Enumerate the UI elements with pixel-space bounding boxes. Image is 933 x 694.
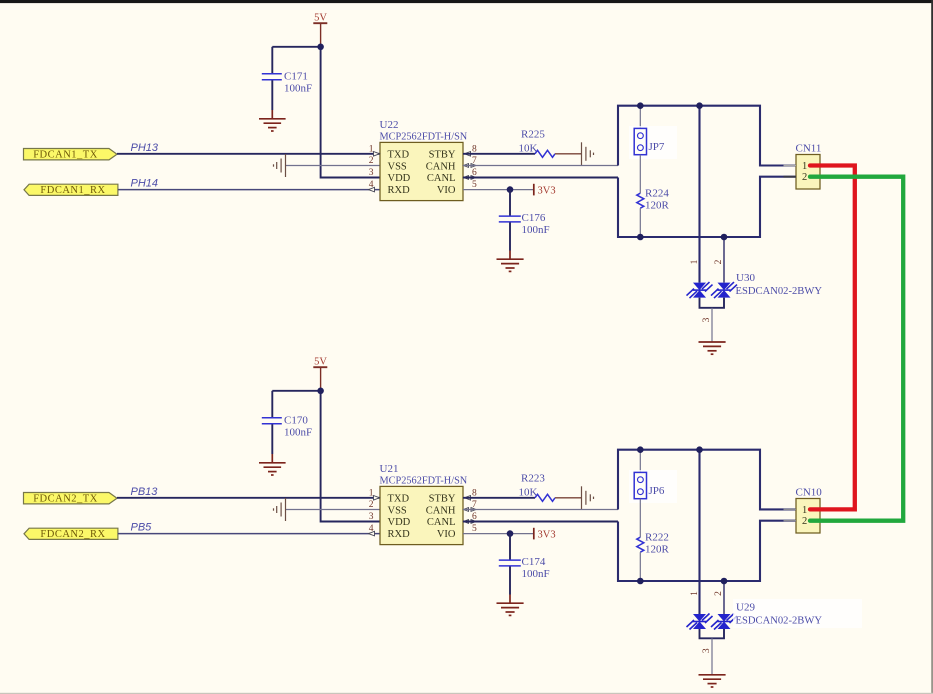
svg-text:U30: U30 [736, 272, 755, 284]
U21 pin numbers left 1-4 [369, 488, 374, 534]
wire VIO pin5 to 3V3 [463, 533, 534, 535]
connector CN10 [796, 486, 823, 533]
wire top rail to JP7 [639, 106, 641, 129]
svg-text:1: 1 [690, 591, 700, 596]
svg-text:RXD: RXD [388, 529, 411, 540]
wire 5V rail to C171 [272, 46, 320, 48]
svg-text:PH14: PH14 [131, 177, 159, 189]
U22 pin numbers left 1-4 [369, 144, 374, 190]
svg-text:100nF: 100nF [284, 83, 312, 95]
wire R222 to bottom rail [639, 552, 641, 581]
CN10 pin 1 stub [784, 508, 797, 510]
junction VIO / C174 [507, 530, 514, 537]
junction bottom rail / R224 [637, 234, 644, 241]
junction bottom rail / diode branch [721, 578, 728, 585]
wires diode bottoms join [700, 298, 725, 308]
power 3V3 (top) [534, 184, 556, 197]
resistor R222 120R [637, 531, 670, 555]
svg-text:VSS: VSS [388, 161, 407, 172]
svg-text:1: 1 [690, 259, 700, 264]
wire FDCAN2_TX to TXD pin1 [117, 497, 380, 499]
wire FDCAN1_TX to TXD pin1 [117, 153, 380, 155]
svg-text:VSS: VSS [388, 505, 407, 516]
wire U30 pin3 to ground [711, 308, 713, 342]
port FDCAN1_TX [24, 149, 118, 161]
capacitor C171 [262, 71, 312, 95]
svg-text:PB13: PB13 [131, 486, 159, 498]
svg-text:FDCAN1_RX: FDCAN1_RX [40, 185, 105, 196]
svg-text:STBY: STBY [429, 150, 456, 161]
ground below C170 [259, 454, 286, 475]
svg-text:PB5: PB5 [131, 521, 153, 533]
pin 1 input arrow [374, 496, 380, 501]
wire CAN_H bus (red) CN11.1 to CN10.1 [810, 166, 855, 510]
svg-text:TXD: TXD [388, 150, 410, 161]
wire 5V rail to C170 [272, 390, 320, 392]
pin 7 bidir arrows [464, 164, 477, 168]
U22 pin names [388, 150, 456, 197]
power 3V3 (bottom) [534, 528, 556, 541]
wire U29 pin3 to ground [711, 638, 713, 674]
svg-text:1: 1 [369, 144, 374, 154]
U22 pin numbers right 8-5 [472, 144, 477, 190]
TVS diode U30 channel 1 [687, 282, 713, 298]
wire CANH pin7 to left rail [463, 165, 618, 167]
svg-text:CANH: CANH [426, 161, 456, 172]
pin 4 output arrow [369, 531, 375, 536]
ground below C176 [497, 251, 524, 272]
svg-text:MCP2562FDT-H/SN: MCP2562FDT-H/SN [380, 132, 468, 143]
junction 5V/C171 [317, 44, 324, 51]
svg-text:MCP2562FDT-H/SN: MCP2562FDT-H/SN [380, 476, 468, 487]
svg-text:2: 2 [802, 516, 807, 527]
white redraw patch behind JP7 [629, 126, 677, 159]
wire 5V down to VDD pin3 [321, 391, 380, 522]
resistor R225 10K [519, 128, 556, 157]
wire VSS pin2 to ground [286, 165, 381, 167]
wire C171 bottom [271, 80, 273, 110]
wire junction to C174 [509, 534, 511, 560]
wire CANL branch down to ESD diode 2 [723, 237, 725, 283]
power 5V (top) [313, 13, 327, 47]
jumper JP6 [634, 472, 665, 498]
svg-text:FDCAN2_RX: FDCAN2_RX [40, 529, 105, 540]
ground below C171 [259, 110, 286, 131]
pin 6 bidir arrows [464, 176, 477, 180]
svg-text:U22: U22 [380, 119, 399, 131]
svg-text:ESDCAN02-2BWY: ESDCAN02-2BWY [736, 286, 823, 297]
wire CANH branch down to ESD diode 1 [698, 106, 700, 283]
CN11 pin 2 stub [784, 176, 797, 178]
TVS diode U29 channel 2 [711, 614, 737, 630]
junction top rail / JP7 [637, 102, 644, 109]
wire CANL pin6 to left rail [463, 177, 618, 179]
svg-text:VIO: VIO [437, 529, 456, 540]
svg-text:STBY: STBY [429, 494, 456, 505]
svg-text:5V: 5V [314, 13, 327, 24]
wire JP7 to R224 [639, 155, 641, 194]
wire C174 to ground [509, 567, 511, 595]
wire VSS pin2 to ground [286, 509, 381, 511]
resistor R224 120R [637, 187, 670, 211]
pin 8 input arrow [465, 496, 471, 501]
resistor R223 10K [519, 472, 556, 501]
svg-text:FDCAN2_TX: FDCAN2_TX [33, 494, 98, 505]
pin 1 input arrow [374, 152, 380, 157]
svg-text:C171: C171 [284, 71, 308, 83]
svg-text:3: 3 [702, 648, 712, 653]
wire STBY pin8 to R225 [463, 153, 535, 155]
svg-text:1: 1 [369, 488, 374, 498]
svg-text:C174: C174 [522, 556, 546, 568]
wire CANL down left rail to bottom rail [618, 177, 796, 237]
wire C171 top [271, 47, 273, 73]
CN10 pin 2 stub [784, 520, 797, 522]
svg-text:5: 5 [472, 180, 477, 190]
junction top rail / JP6 [637, 446, 644, 453]
TVS diode U30 channel 2 [711, 282, 737, 298]
port FDCAN2_TX [24, 493, 118, 505]
capacitor C176 [499, 212, 550, 236]
port FDCAN2_RX [24, 528, 118, 540]
wire VIO pin5 to 3V3 [463, 189, 534, 191]
svg-text:RXD: RXD [388, 185, 411, 196]
svg-text:U29: U29 [736, 602, 755, 614]
svg-text:JP7: JP7 [649, 141, 665, 153]
svg-text:ESDCAN02-2BWY: ESDCAN02-2BWY [736, 616, 823, 627]
svg-text:VIO: VIO [437, 185, 456, 196]
wire C170 bottom [271, 424, 273, 454]
page border top [0, 0, 933, 3]
svg-text:1: 1 [802, 161, 807, 172]
page border bottom [0, 693, 933, 694]
capacitor C170 [262, 415, 312, 439]
capacitor C174 [499, 556, 550, 580]
wire RXD pin4 to FDCAN1_RX [118, 189, 380, 191]
wire 5V down to VDD pin3 [321, 47, 380, 178]
pin 6 bidir arrows [464, 520, 477, 524]
svg-text:5: 5 [472, 524, 477, 534]
svg-text:JP6: JP6 [649, 485, 665, 497]
transceiver U21 body [380, 463, 468, 545]
svg-text:CANH: CANH [426, 505, 456, 516]
svg-text:10K: 10K [519, 143, 538, 155]
wire CAN_L bus (green) CN11.2 to CN10.2 [810, 177, 903, 521]
white redraw patch behind JP6 [629, 470, 677, 503]
svg-text:CN10: CN10 [796, 486, 823, 498]
jumper JP7 [634, 128, 665, 154]
junction bottom rail / R222 [637, 578, 644, 585]
TVS diode U29 channel 1 [687, 614, 713, 630]
ground at VSS (rotated left) [274, 498, 286, 521]
svg-text:2: 2 [714, 259, 724, 264]
svg-text:U21: U21 [380, 463, 399, 475]
wire CANH pin7 to left rail [463, 509, 618, 511]
svg-text:2: 2 [369, 156, 374, 166]
svg-text:3: 3 [369, 168, 374, 178]
svg-text:10K: 10K [519, 487, 538, 499]
svg-text:3V3: 3V3 [538, 529, 556, 540]
wire CANH branch down to ESD diode 1 [698, 450, 700, 614]
wire JP6 to R222 [639, 499, 641, 538]
op-amp-block U22 body [380, 119, 468, 201]
svg-text:FDCAN1_TX: FDCAN1_TX [33, 150, 98, 161]
pin 7 bidir arrows [464, 508, 477, 512]
ground below U30 [699, 342, 726, 354]
svg-text:R225: R225 [521, 128, 545, 140]
CN11 pin 1 stub [784, 165, 797, 167]
wire R224 to bottom rail [639, 208, 641, 237]
svg-text:CANL: CANL [427, 173, 456, 184]
svg-text:5V: 5V [314, 357, 327, 368]
svg-text:120R: 120R [645, 199, 670, 211]
wire CANH up left rail to CN10 pin1 [618, 450, 796, 510]
svg-text:R223: R223 [521, 472, 545, 484]
svg-text:R222: R222 [645, 531, 669, 543]
power 5V (bottom) [313, 357, 327, 391]
svg-text:100nF: 100nF [284, 427, 312, 439]
pin 8 input arrow [465, 152, 471, 157]
svg-text:C170: C170 [284, 415, 308, 427]
junction VIO / C176 [507, 186, 514, 193]
wire CANH up left rail [618, 106, 796, 166]
junction bottom rail / diode branch [721, 234, 728, 241]
wire CANL down left rail to CN10 pin2 [618, 521, 796, 581]
svg-text:C176: C176 [522, 212, 546, 224]
svg-text:VDD: VDD [388, 173, 411, 184]
wire CANL pin6 to left rail [463, 521, 618, 523]
svg-text:2: 2 [802, 172, 807, 183]
port FDCAN1_RX [24, 184, 118, 196]
svg-text:1: 1 [802, 505, 807, 516]
ground below U29 [699, 675, 726, 687]
wire CANL branch down to ESD diode 2 [723, 581, 725, 614]
wire STBY pin8 to R223 [463, 497, 535, 499]
ground at VSS (rotated left) [274, 154, 286, 177]
svg-text:3: 3 [702, 317, 712, 322]
svg-text:120R: 120R [645, 543, 670, 555]
svg-text:R224: R224 [645, 187, 669, 199]
svg-text:PH13: PH13 [131, 142, 159, 154]
U21 pin numbers right 8-5 [472, 488, 477, 534]
svg-text:TXD: TXD [388, 494, 410, 505]
wire C170 top [271, 391, 273, 417]
svg-text:3V3: 3V3 [538, 185, 556, 196]
svg-text:CANL: CANL [427, 517, 456, 528]
svg-text:CN11: CN11 [796, 142, 822, 154]
svg-text:2: 2 [369, 500, 374, 510]
svg-text:100nF: 100nF [522, 568, 550, 580]
junction top rail / diode branch [696, 102, 703, 109]
white redraw patch behind U29 labels [733, 599, 862, 628]
ground at R225 (rotated right) [582, 142, 594, 165]
pin 4 output arrow [369, 187, 375, 192]
U21 pin names [388, 494, 456, 541]
wire top rail to JP6 [639, 450, 641, 473]
connector CN11 [796, 142, 822, 189]
wire RXD pin4 to FDCAN2_RX [118, 533, 380, 535]
ground below C174 [497, 595, 524, 616]
wire junction to C176 [509, 190, 511, 216]
junction 5V/C170 [317, 388, 324, 395]
svg-text:2: 2 [714, 591, 724, 596]
wire R225 to ground [555, 153, 582, 155]
junction top rail / diode branch [696, 446, 703, 453]
svg-text:100nF: 100nF [522, 224, 550, 236]
wire C176 to ground [509, 223, 511, 251]
svg-text:3: 3 [369, 512, 374, 522]
svg-text:VDD: VDD [388, 517, 411, 528]
wire R223 to ground [555, 497, 582, 499]
wires diode bottoms join [700, 629, 725, 638]
ground at R223 (rotated right) [582, 486, 594, 509]
